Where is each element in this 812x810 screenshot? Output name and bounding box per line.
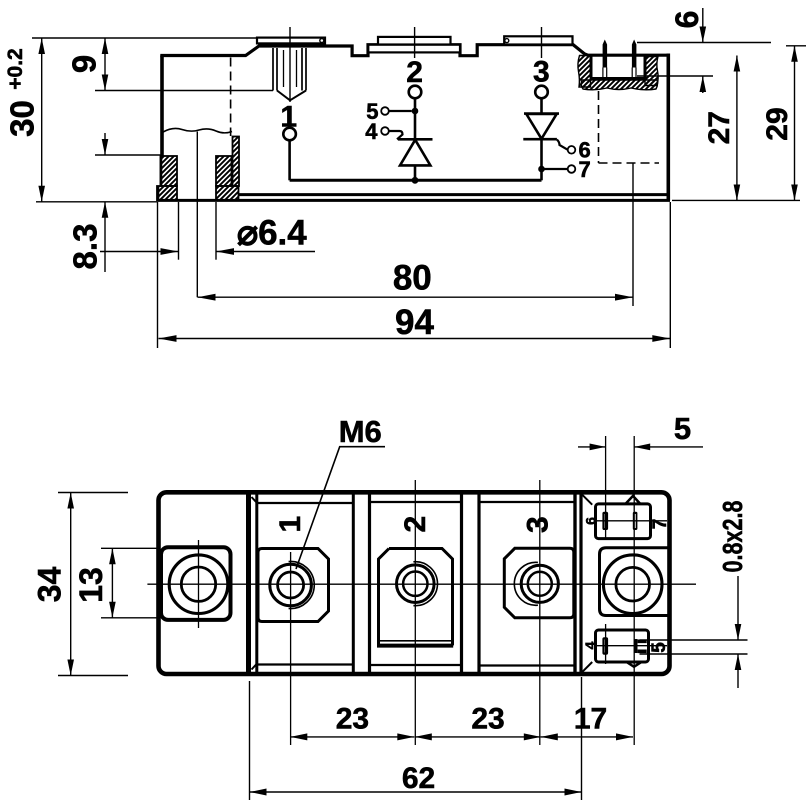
hidden boss edge (dashed) [230,58,232,137]
centerline terminal 2 [414,27,416,58]
pin 6 terminal circle [568,146,576,154]
centerline terminal 3 [541,27,543,58]
pin row centreline pocket5 [594,645,667,647]
wire T3 to bus [540,139,543,180]
centrelines plan view [147,436,696,745]
section 2 box [370,493,462,675]
svg-text:6: 6 [583,517,599,525]
svg-text:23: 23 [336,703,369,736]
pocket interior walls [591,56,645,79]
pin tab B (end view) [633,512,638,530]
dim 13 [111,548,113,618]
module body outline (side view) [160,45,668,201]
hidden pocket cavity (dashed) [599,91,660,163]
svg-text:9: 9 [66,55,103,73]
svg-text:0.8x2.8: 0.8x2.8 [717,501,748,573]
bushing sleeve left (hatched) [161,156,178,186]
terminal pedestal 2 [368,45,460,53]
svg-text:3: 3 [533,56,550,89]
svg-text:34: 34 [32,567,68,603]
bushing flange right (hatched) [216,186,239,200]
ext lines 34 [58,493,128,676]
fast-on pin B (side view) [632,40,637,68]
dim 9 [104,38,106,91]
pin tab D (end view, measured) [636,639,647,653]
svg-text:1: 1 [274,516,307,533]
ext line cap top right [786,45,806,47]
ext line module right edge down [669,202,671,348]
node junction bus T2 [412,177,419,184]
module outline (plan view) [159,492,670,674]
wire T2 to bus [414,165,417,180]
centerline terminal 1 [289,27,291,102]
screw hole terminal 1 (sectioned) [273,48,306,100]
wire pin7 [542,168,568,170]
svg-text:5: 5 [674,411,691,446]
ext line hole left wall [178,202,180,260]
dim 34 [70,493,72,676]
ext line bushing centre [196,132,198,298]
dim 23 (first) [290,736,414,738]
svg-text:7: 7 [650,519,671,530]
dim 27 [736,56,738,201]
terminal 2 circle [409,86,422,99]
gate wire pin6 [557,140,568,150]
svg-text:4: 4 [582,641,598,649]
centreline pin A column [605,436,607,664]
bushing flange left (hatched) [157,186,177,200]
dim 0.8x2.8 [737,576,739,688]
main horizontal centreline [147,583,696,585]
svg-text:6: 6 [669,11,705,29]
terminal 1 circle [283,128,296,141]
svg-text:⌀6.4: ⌀6.4 [237,214,307,253]
mounting boss left [161,547,231,620]
svg-text:62: 62 [402,762,435,795]
terminal 3 hole [521,565,558,602]
svg-text:27: 27 [703,111,736,144]
wire pin5 [389,110,412,112]
svg-text:3: 3 [522,516,555,533]
terminal 2 hole [397,565,435,603]
wire terminal3 down [540,98,543,113]
dim 8.3 [104,133,106,272]
ext line bushing top [95,154,162,156]
ext line pin top right [637,42,771,44]
dim 23 (second) [415,736,541,738]
thyristor T3 (cathode down) [524,112,559,115]
connector pocket 5 (bottom right) [596,630,649,662]
node junction pin7 [538,166,545,173]
centreline terminal 2 [414,480,416,745]
pin tab A (end view) [602,512,608,530]
left section wall [246,492,251,675]
boss wall column (hatched) [233,137,240,187]
node junction pin5 [412,108,419,115]
svg-text:+0.2: +0.2 [4,48,27,89]
ext line pocket floor right [637,75,713,77]
svg-text:7: 7 [579,157,591,182]
pin row centreline pocket7 [594,520,667,522]
ext lines 13 [101,548,160,618]
ext line pin column [632,163,634,306]
mounting boss right [600,548,670,616]
ext line baseplate bottom left [36,201,157,203]
ext line baseplate bottom right [672,199,800,201]
baseplate (side view) [239,193,669,196]
fast-on pin A (side view) [603,40,608,68]
mounting hole left inner [181,567,215,601]
terminal pad 1 [258,549,329,622]
pin 7 terminal circle [568,165,576,173]
terminal clamp plate 1 [257,38,325,44]
mounting hole left outer [169,555,228,614]
wire terminal2 down [414,98,417,139]
svg-text:23: 23 [471,703,504,736]
dim 29 [794,46,796,201]
svg-text:94: 94 [395,303,434,342]
centreline terminal 3 [539,480,541,745]
terminal clamp plate 3 [504,36,572,44]
dim 62 [250,791,582,793]
ext line cap top left [32,37,257,39]
centreline terminal 1 [290,552,292,745]
section 3 box [479,493,575,675]
mounting bushing section (left) : wavy break line [163,128,232,132]
bushing left boundary bold [158,156,161,201]
svg-text:30: 30 [4,100,41,137]
ext line hole right wall [215,202,217,260]
ext lines 62 [250,677,582,800]
connector pocket 7 (top right) [626,496,641,504]
ext lines 0.8x2.8 [640,640,748,654]
end divider [575,492,581,674]
svg-text:29: 29 [761,107,794,140]
svg-text:M6: M6 [339,414,382,449]
dim 6 (right) [702,8,704,93]
pin 5 terminal circle [381,107,389,115]
ext line thread seat [95,90,273,92]
svg-text:80: 80 [393,259,432,298]
svg-text:2: 2 [406,56,423,89]
svg-text:8.3: 8.3 [67,224,104,270]
bushing sleeve right (hatched) [216,156,232,186]
section 1 box [257,493,354,675]
pin 4 terminal circle [381,127,389,135]
svg-text:13: 13 [73,567,109,603]
mounting hole right inner [616,567,650,601]
dim 94 [159,338,671,340]
wire terminal1 to bus [288,140,291,180]
terminal pad 2 [379,549,453,646]
svg-text:5: 5 [649,642,670,653]
gate wire pin4 [389,131,403,139]
end cap chamfers [582,495,592,672]
dim 17 [541,736,633,738]
mounting hole right outer [603,555,662,614]
dim diameter 6.4 [100,251,315,253]
terminal pad 3 [504,548,574,618]
bus wire [290,179,542,182]
svg-text:4: 4 [365,119,378,144]
centreline left hole [198,540,200,628]
terminal 3 circle [535,86,548,99]
connector pocket section (right) : hatched clouds [578,56,591,88]
terminal 1 hole [270,564,312,606]
svg-text:17: 17 [574,703,607,736]
dim 80 [198,296,634,298]
pin tab C (end view) [602,637,608,654]
thyristor T2 (cathode up) [398,138,433,141]
dim 30+0.2 [41,38,43,202]
ext line module left edge down [157,202,159,348]
dim 5 (top right) [578,446,703,448]
centreline pin column [633,436,635,745]
terminal clamp plate 2 [378,37,451,45]
